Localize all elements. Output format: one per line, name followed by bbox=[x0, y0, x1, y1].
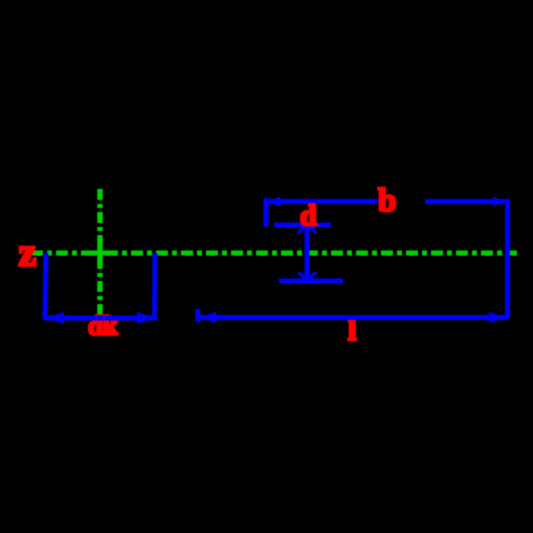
svg-text:d: d bbox=[300, 199, 317, 232]
d extension bar top (shank upper edge) bbox=[274, 223, 331, 228]
svg-text:b: b bbox=[378, 183, 396, 219]
dk extension line left bbox=[45, 253, 46, 320]
d arrow top (open V) bbox=[298, 225, 316, 234]
l arrow left bbox=[200, 312, 216, 323]
l arrow right bbox=[489, 312, 505, 323]
dk extension line right bbox=[152, 253, 158, 320]
svg-text:dk: dk bbox=[88, 311, 118, 341]
d arrow bottom (open V) bbox=[298, 272, 316, 281]
d extension bar bottom (shank lower edge) bbox=[279, 279, 343, 284]
b arrow right bbox=[493, 197, 505, 207]
centerline crossing blob bbox=[92, 251, 108, 256]
l dimension line bbox=[197, 315, 507, 320]
d dimension line vertical bbox=[305, 224, 310, 281]
b extension line left bbox=[264, 198, 269, 227]
dk dimension line bbox=[44, 316, 156, 321]
svg-text:z: z bbox=[19, 230, 37, 275]
b arrow left bbox=[268, 197, 280, 207]
dk arrow right bbox=[137, 312, 155, 324]
l tick (screw tip) bbox=[196, 309, 201, 322]
b dimension line left segment bbox=[264, 199, 378, 204]
b dimension line right segment bbox=[425, 199, 507, 204]
right extension line (screw end) bbox=[505, 199, 510, 318]
vertical centerline axis bbox=[97, 189, 103, 314]
horizontal centerline axis bbox=[31, 251, 517, 256]
dk arrow left bbox=[46, 312, 64, 324]
